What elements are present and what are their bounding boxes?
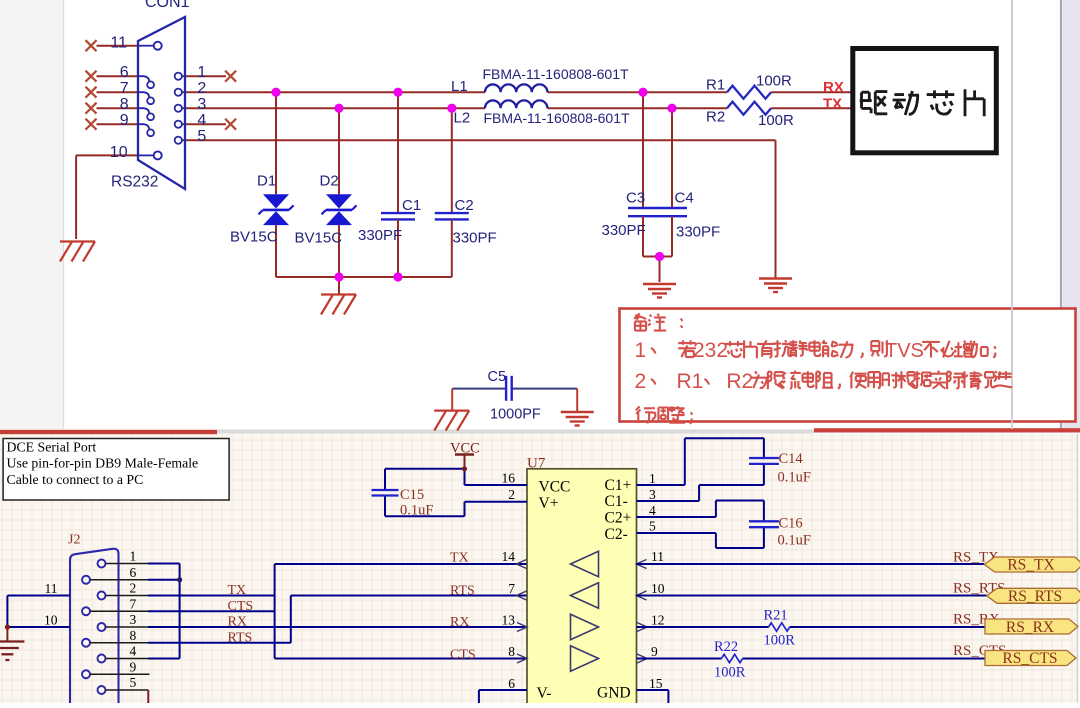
svg-text:C15: C15 — [400, 487, 424, 503]
svg-text:V-: V- — [537, 685, 552, 702]
svg-text:1: 1 — [649, 471, 656, 486]
svg-text:3: 3 — [649, 487, 656, 502]
svg-text:C3: C3 — [626, 190, 645, 207]
svg-text:RS232: RS232 — [111, 174, 158, 191]
svg-text:100R: 100R — [764, 633, 796, 649]
svg-text:330PF: 330PF — [453, 230, 497, 247]
svg-text:4: 4 — [197, 112, 206, 129]
svg-text:3: 3 — [197, 96, 206, 113]
svg-text:2: 2 — [635, 370, 647, 393]
svg-text:15: 15 — [649, 676, 663, 691]
svg-text:9: 9 — [130, 659, 137, 674]
svg-text:DCE Serial Port: DCE Serial Port — [7, 439, 97, 454]
svg-text:BV15C: BV15C — [295, 230, 343, 247]
svg-text:10: 10 — [110, 144, 128, 161]
svg-text:J2: J2 — [68, 532, 80, 547]
svg-text:14: 14 — [502, 549, 516, 564]
svg-text:8: 8 — [130, 628, 137, 643]
svg-text:9: 9 — [651, 644, 658, 659]
svg-text:RS_CTS: RS_CTS — [1002, 650, 1057, 667]
svg-text:2: 2 — [130, 581, 137, 596]
svg-text:L1: L1 — [451, 78, 468, 95]
svg-text:TX: TX — [450, 551, 469, 566]
svg-text:2: 2 — [197, 80, 206, 97]
svg-text:FBMA-11-160808-601T: FBMA-11-160808-601T — [484, 110, 630, 126]
svg-text:RX: RX — [823, 79, 844, 96]
svg-text:C4: C4 — [675, 190, 694, 207]
svg-text:R1: R1 — [677, 370, 704, 393]
svg-text:100R: 100R — [756, 73, 792, 90]
svg-text:1: 1 — [197, 64, 206, 81]
svg-text:C16: C16 — [779, 516, 803, 532]
svg-text:4: 4 — [130, 644, 137, 659]
svg-text:6: 6 — [120, 64, 129, 81]
svg-text:C14: C14 — [779, 451, 804, 467]
svg-text:6: 6 — [508, 676, 515, 691]
svg-text:11: 11 — [110, 35, 127, 52]
svg-text:D1: D1 — [257, 173, 276, 190]
svg-text:7: 7 — [120, 80, 129, 97]
svg-text:13: 13 — [502, 612, 516, 627]
svg-text:R2: R2 — [726, 370, 753, 393]
svg-text:9: 9 — [120, 112, 129, 129]
svg-text:5: 5 — [649, 519, 656, 534]
svg-text:R2: R2 — [706, 109, 725, 126]
svg-text:6: 6 — [130, 565, 137, 580]
svg-text:8: 8 — [508, 644, 515, 659]
svg-text:11: 11 — [45, 581, 58, 596]
svg-text:C1: C1 — [402, 197, 421, 214]
svg-text:5: 5 — [130, 675, 137, 690]
svg-text:GND: GND — [597, 685, 631, 702]
svg-text:CTS: CTS — [450, 647, 476, 662]
svg-text:R1: R1 — [706, 77, 725, 94]
svg-text:330PF: 330PF — [676, 224, 720, 241]
svg-text:8: 8 — [120, 96, 129, 113]
svg-text:100R: 100R — [758, 112, 794, 129]
svg-text:U7: U7 — [527, 456, 546, 472]
svg-text:RX: RX — [450, 615, 469, 630]
svg-text:1000PF: 1000PF — [490, 407, 541, 423]
svg-text:C2+: C2+ — [605, 510, 632, 527]
svg-text:C1-: C1- — [605, 493, 628, 510]
svg-text:R22: R22 — [714, 639, 738, 655]
svg-text:330PF: 330PF — [602, 222, 646, 239]
svg-text:RS_TX: RS_TX — [1007, 557, 1054, 574]
svg-text:RS_RX: RS_RX — [1006, 619, 1054, 636]
svg-text:FBMA-11-160808-601T: FBMA-11-160808-601T — [483, 66, 629, 82]
svg-text:TX: TX — [823, 96, 842, 113]
svg-text:11: 11 — [651, 549, 664, 564]
svg-text:BV15C: BV15C — [230, 229, 278, 246]
svg-text:7: 7 — [130, 596, 137, 611]
svg-text:1: 1 — [130, 549, 137, 564]
svg-text:1: 1 — [635, 339, 647, 362]
svg-text:330PF: 330PF — [358, 227, 402, 244]
svg-text:16: 16 — [502, 471, 516, 486]
svg-text:L2: L2 — [454, 110, 471, 127]
svg-text:7: 7 — [508, 581, 515, 596]
svg-text:5: 5 — [197, 128, 206, 145]
svg-text:100R: 100R — [714, 665, 746, 681]
svg-text:3: 3 — [130, 612, 137, 627]
svg-text:C2: C2 — [455, 197, 474, 214]
svg-text:VCC: VCC — [539, 479, 571, 496]
svg-text:Cable to connect to a PC: Cable to connect to a PC — [7, 472, 144, 487]
svg-text:0.1uF: 0.1uF — [778, 470, 811, 486]
svg-text:TVS: TVS — [885, 340, 924, 362]
svg-text:Use pin-for-pin DB9 Male-Femal: Use pin-for-pin DB9 Male-Female — [7, 456, 199, 471]
svg-text:RTS: RTS — [450, 584, 475, 599]
svg-text:V+: V+ — [539, 495, 559, 512]
svg-text:R21: R21 — [764, 608, 788, 624]
svg-text:C1+: C1+ — [605, 477, 632, 494]
svg-text:D2: D2 — [320, 173, 339, 190]
svg-text:4: 4 — [649, 503, 656, 518]
svg-text:10: 10 — [44, 613, 58, 628]
svg-text:0.1uF: 0.1uF — [400, 503, 433, 519]
svg-text:C2-: C2- — [605, 526, 628, 543]
svg-text:232: 232 — [693, 339, 728, 362]
svg-text:12: 12 — [651, 612, 665, 627]
svg-text:C5: C5 — [488, 369, 507, 385]
svg-text:CON1: CON1 — [145, 0, 190, 11]
svg-text:0.1uF: 0.1uF — [778, 533, 811, 549]
svg-text:10: 10 — [651, 581, 665, 596]
svg-text:2: 2 — [508, 487, 515, 502]
svg-text:RS_RTS: RS_RTS — [1008, 588, 1062, 605]
